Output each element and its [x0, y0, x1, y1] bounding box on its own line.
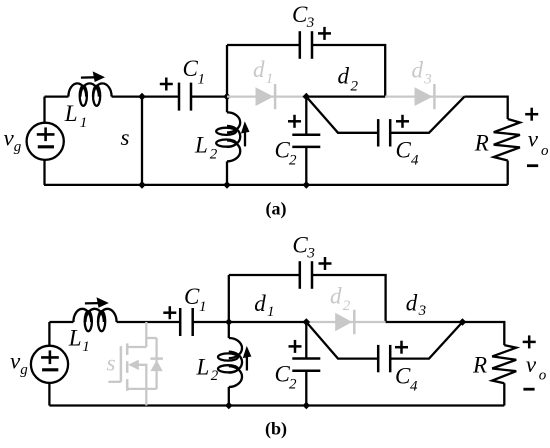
inductor L1 (a) — [68, 83, 111, 105]
polarity + for C2 (a) — [288, 115, 301, 128]
wire: L2 bottom lead (b) — [228, 387, 230, 406]
label d1 (b) — [254, 291, 274, 320]
svg-text:C: C — [395, 364, 411, 389]
label d1 (a) — [253, 57, 273, 87]
label d2 (a) — [338, 64, 359, 95]
switch s MOSFET (b) — [108, 322, 162, 406]
svg-text:3: 3 — [418, 303, 427, 319]
svg-text:1: 1 — [199, 299, 207, 315]
svg-text:R: R — [474, 130, 489, 155]
svg-text:4: 4 — [410, 379, 418, 395]
label C2 (b) — [275, 362, 298, 393]
diode d3 off (a) — [415, 84, 435, 109]
svg-text:s: s — [107, 351, 116, 376]
polarity - for vo (a) — [527, 164, 538, 167]
wire: L2 bottom lead (a) — [226, 161, 228, 185]
wire: C3 rail right and drop (b) — [312, 275, 386, 322]
node B: C2 top junction (b) — [303, 318, 311, 326]
polarity + for C2 (b) — [289, 340, 302, 353]
inductor L1 (b) — [73, 309, 116, 331]
wire: C2 top lead (a) — [305, 97, 307, 135]
label C4 (b) — [395, 364, 418, 395]
polarity + for C3 (a) — [318, 27, 331, 40]
polarity + for vo (a) — [525, 108, 538, 121]
label vo (b) — [526, 352, 547, 384]
polarity + for C4 (a) — [396, 115, 409, 128]
svg-text:R: R — [472, 353, 487, 378]
wire: bottom rail (a) — [44, 184, 508, 186]
svg-text:1: 1 — [82, 339, 90, 355]
svg-text:C: C — [184, 284, 200, 309]
current arrow for L2 (b) — [243, 346, 252, 371]
wire: R bottom lead (b) — [503, 383, 505, 405]
svg-text:d: d — [406, 291, 418, 316]
svg-text:L: L — [196, 355, 210, 380]
node: rail junction right (b) — [459, 318, 467, 326]
wire: vg top lead (b) — [48, 322, 50, 346]
node: C2 bottom (b) — [303, 402, 311, 410]
current arrow for L2 (a) — [241, 121, 250, 146]
svg-text:o: o — [539, 368, 547, 384]
wire: vg bottom lead (b) — [48, 383, 50, 406]
svg-text:C: C — [183, 56, 199, 81]
svg-text:2: 2 — [351, 78, 359, 94]
capacitor C4 (a) — [378, 119, 390, 146]
label vo (a) — [528, 126, 549, 158]
label C1 (b) — [184, 284, 207, 315]
wire: C3 rail right and drop (a) — [312, 45, 385, 97]
wire: top-left segment (b) — [49, 321, 73, 323]
wire: C3 rail left (a) — [227, 44, 300, 46]
label L1 (a) — [64, 101, 88, 131]
label vg (a) — [4, 126, 22, 155]
wire: node A up to C3 rail (b) — [228, 275, 230, 322]
wire: d3 gray rail (a) — [385, 95, 464, 97]
wire: top-left segment (a) — [45, 95, 69, 97]
svg-text:v: v — [528, 126, 539, 151]
label L2 (b) — [196, 355, 219, 384]
label L2 (a) — [194, 132, 218, 162]
svg-text:g: g — [20, 362, 28, 378]
polarity - for vo (b) — [523, 388, 534, 391]
wire: C3 rail left (b) — [229, 274, 300, 276]
diode d2 off (b) — [335, 310, 354, 334]
wire: C1 to node A (a) — [191, 95, 227, 97]
wire: rail to R column (a) — [465, 97, 508, 119]
svg-text:d: d — [338, 64, 350, 89]
wire: d1 conducting segment (b) — [229, 321, 306, 323]
wire: C2 bottom lead (a) — [305, 147, 307, 185]
wire: vg bottom lead (a) — [43, 160, 45, 185]
node B: C2 top junction (a) — [303, 93, 311, 101]
wire: C2 bottom lead (b) — [305, 371, 307, 406]
capacitor C3 (b) — [300, 261, 312, 289]
wire: C4 to rail diagonal (a) — [390, 97, 464, 133]
current arrow for L1 (b) — [85, 297, 109, 308]
svg-text:C: C — [292, 2, 308, 27]
inductor L2 (a) — [216, 112, 240, 161]
label d3 (b) — [406, 291, 426, 319]
label C1 (a) — [183, 56, 206, 88]
diode d1 off (a) — [256, 84, 276, 109]
label d2 (b) — [330, 284, 351, 315]
svg-text:(a): (a) — [266, 199, 287, 220]
wire: L2 top lead (a) — [226, 97, 228, 113]
node A: C1/L2/C3 junction (a) — [223, 93, 231, 101]
svg-text:2: 2 — [343, 298, 351, 314]
svg-text:L: L — [68, 326, 82, 351]
svg-text:L: L — [64, 101, 78, 126]
wire: d1 gray rail (a) — [227, 95, 306, 97]
svg-text:3: 3 — [306, 246, 315, 262]
capacitor C2 (b) — [292, 359, 320, 371]
wire: L1 to C1 (a) — [112, 95, 179, 97]
svg-text:2: 2 — [289, 377, 297, 393]
wire: C2 top lead (b) — [305, 322, 307, 359]
polarity + for C1 (a) — [160, 78, 173, 91]
svg-text:3: 3 — [306, 15, 315, 31]
svg-text:v: v — [526, 352, 537, 377]
svg-text:d: d — [330, 284, 342, 309]
svg-text:3: 3 — [423, 72, 432, 88]
capacitor C1 (a) — [179, 83, 191, 111]
svg-text:d: d — [253, 57, 265, 82]
svg-text:C: C — [396, 138, 412, 163]
svg-text:(b): (b) — [265, 419, 287, 440]
label C2 (a) — [275, 137, 298, 168]
node: C2 bottom (a) — [303, 181, 311, 189]
svg-text:o: o — [541, 143, 549, 159]
label C3 (b) — [292, 233, 315, 262]
inductor L2 (b) — [218, 338, 242, 387]
node: s top (a) — [138, 93, 146, 101]
wire: node B diagonal to C4 (b) — [306, 322, 378, 359]
node A: C1/L2/C3 junction (b) — [225, 318, 233, 326]
svg-text:2: 2 — [211, 368, 219, 384]
capacitor C3 (a) — [300, 31, 312, 59]
wire: C1 to node A (b) — [193, 321, 229, 323]
resistor R (b) — [492, 345, 516, 383]
svg-text:1: 1 — [267, 304, 275, 320]
svg-text:C: C — [292, 233, 308, 258]
polarity + for C4 (b) — [395, 341, 408, 354]
wire: d3 conducting segment (b) — [386, 321, 463, 323]
node: L2 bottom (b) — [225, 402, 233, 410]
capacitor C2 (a) — [292, 135, 320, 147]
polarity + for vo (b) — [523, 335, 536, 348]
capacitor C1 (b) — [180, 308, 193, 336]
wire: d2 conducting segment (a) — [306, 95, 385, 97]
wire: node A up to C3 rail (a) — [226, 45, 228, 97]
voltage source vg (b) — [31, 346, 68, 383]
polarity + for C1 (b) — [163, 306, 176, 319]
label C3 (a) — [292, 2, 314, 31]
wire: bottom rail (b) — [49, 404, 504, 406]
svg-text:g: g — [14, 139, 22, 155]
wire: R bottom lead (a) — [507, 161, 509, 185]
svg-text:d: d — [412, 58, 424, 83]
wire: rail to R column (b) — [463, 322, 505, 345]
label vg (b) — [10, 349, 28, 379]
svg-text:s: s — [121, 125, 130, 150]
resistor R (a) — [494, 119, 520, 161]
svg-text:1: 1 — [198, 72, 206, 88]
node: s bottom (a) — [138, 181, 146, 189]
svg-text:2: 2 — [289, 152, 297, 168]
current arrow for L1 (a) — [81, 71, 105, 82]
label d3 (a) — [412, 58, 432, 88]
polarity + for C3 (b) — [319, 257, 332, 270]
switch s closed wire (a) — [141, 97, 143, 185]
label C4 (a) — [396, 138, 420, 169]
wire: d2 gray rail (b) — [306, 321, 385, 323]
svg-text:L: L — [194, 132, 208, 157]
wire: L2 top lead (b) — [228, 322, 230, 338]
svg-text:1: 1 — [80, 115, 88, 131]
svg-text:4: 4 — [411, 153, 419, 169]
voltage source vg (a) — [27, 123, 64, 160]
wire: node B diagonal to C4 (a) — [306, 97, 378, 133]
wire: L1 to C1 (b) — [117, 321, 181, 323]
svg-text:1: 1 — [266, 71, 274, 87]
svg-text:2: 2 — [210, 147, 218, 163]
node: L2 bottom (a) — [223, 181, 231, 189]
wire: vg top lead (a) — [43, 97, 45, 123]
label L1 (b) — [68, 326, 90, 356]
wire: C4 to rail diagonal (b) — [390, 322, 462, 359]
svg-text:d: d — [254, 291, 266, 316]
capacitor C4 (b) — [378, 345, 390, 372]
